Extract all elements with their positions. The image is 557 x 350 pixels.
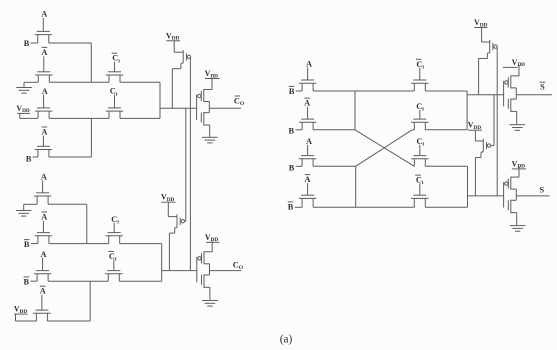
gate lead of M14: [307, 107, 309, 120]
gate lead of M5: [114, 95, 116, 108]
svg-text:S: S: [540, 83, 545, 92]
vertical joining rows S3,S4 outputs: [467, 166, 469, 207]
label B (source of M6): [26, 155, 32, 164]
gate lead of M15: [307, 145, 309, 156]
nmos pass transistor M11 (gate Ci-bar, row 7): [105, 271, 122, 282]
wire B-bar to M10 source: [31, 280, 38, 282]
wire VDD to M12 source: [16, 320, 37, 322]
wire M2 drain to M3 source: [49, 81, 109, 83]
nmos pass transistor M16 (gate A-bar, row S4): [299, 195, 316, 207]
nmos of inverter U1: [201, 108, 209, 137]
wire MP5 gate to cross-coupled line: [496, 46, 498, 48]
label Ci (gate of M5): [110, 87, 118, 98]
ground symbol of U2: [202, 301, 218, 307]
svg-text:A: A: [304, 99, 310, 108]
node X wire (input of Co-bar inverter): [160, 107, 197, 109]
svg-text:A: A: [41, 10, 47, 19]
cross wire S1/S2 node to SC3 source: [355, 130, 414, 167]
svg-text:(a): (a): [280, 334, 293, 346]
svg-text:A: A: [40, 287, 46, 296]
svg-text:A: A: [306, 60, 312, 69]
label B-bar (source of M13): [289, 86, 295, 96]
svg-text:A: A: [41, 213, 47, 222]
gate lead of M12: [41, 295, 43, 310]
svg-text:A: A: [41, 48, 47, 57]
label Co-bar (carry-bar output): [234, 96, 245, 107]
nmos pass transistor M8 (gate A-bar, row 6): [35, 233, 52, 244]
wire VDD to MP6 source: [475, 140, 483, 142]
nmos of inverter U4: [508, 196, 516, 225]
nmos pass transistor M10 (gate A, row 7): [34, 271, 51, 282]
label B (source of M14): [289, 127, 295, 136]
wire row1 to row2 vertical: [90, 43, 92, 82]
VDD stem of keeper MP5: [481, 28, 483, 43]
VDD stem of keeper MP6: [474, 130, 476, 141]
VDD label row 3: [16, 104, 30, 114]
VDD stem of keeper MP2: [167, 202, 169, 216]
wire M11 drain right: [119, 280, 161, 282]
VDD label of inverter U4: [512, 159, 526, 169]
VDD label of inverter U2: [205, 233, 220, 243]
nmos of inverter U3: [508, 95, 516, 124]
VDD stem of keeper MP1: [173, 41, 175, 52]
cross-coupled line from MP5 gate down to node Y2: [496, 47, 498, 196]
pmos of inverter U4: [505, 166, 519, 196]
wire U1 output to Co-bar: [209, 107, 241, 109]
label A-bar (gate of M6): [41, 127, 47, 137]
nmos pass transistor M15 (gate A, row S3): [299, 156, 316, 167]
gate lead of M17: [419, 68, 421, 80]
label A-bar (gate of M8): [41, 212, 47, 222]
gate lead of M9: [113, 223, 115, 233]
wire M10 drain to M11 source: [48, 280, 108, 282]
wire U2 output to Co: [210, 270, 242, 272]
label B-bar (source of M16): [288, 202, 294, 212]
wire B-bar to M16 source: [295, 206, 302, 208]
ground symbol row 2: [16, 88, 32, 94]
wire B to M15 source: [296, 165, 302, 167]
wire M2 source to ground: [24, 81, 38, 83]
wire U4 output to S: [516, 195, 549, 197]
wire M3 drain right: [120, 81, 160, 83]
ground symbol of U4: [510, 226, 526, 232]
svg-text:B: B: [24, 240, 30, 249]
label A (gate of M13): [306, 60, 312, 69]
nmos pass transistor M7 (gate A, row 5): [34, 193, 51, 205]
label A-bar (gate of M2): [41, 47, 47, 57]
wire M18 drain right: [425, 129, 467, 131]
pmos keeper MP6: [475, 139, 490, 196]
svg-text:A: A: [41, 250, 47, 259]
wire row8 to row7 vertical: [89, 281, 91, 321]
wire M14 drain right: [313, 129, 355, 131]
inverter U1 input gate bar: [196, 95, 198, 121]
label A (gate of M4): [42, 87, 48, 96]
nmos pass transistor M5 (gate Ci, row 3): [106, 108, 123, 119]
ground symbol of U3: [510, 125, 526, 131]
nmos pass transistor M18 (gate Ci, row S2): [411, 119, 428, 130]
wire M8 drain to M9 source: [49, 243, 109, 245]
svg-text:B: B: [288, 202, 294, 211]
nmos pass transistor M12 (gate A-bar, row 8): [33, 310, 50, 321]
nmos pass transistor M20 (gate Ci-bar, row S4): [411, 195, 428, 207]
gate lead of M4: [43, 95, 45, 108]
wire M15 drain right: [313, 165, 356, 167]
svg-text:A: A: [41, 173, 47, 182]
ground stem row 2: [23, 82, 25, 87]
pmos keeper MP5: [479, 40, 498, 95]
nmos pass transistor M4 (gate A, row 3): [35, 108, 52, 119]
node Y wire (input of Co inverter): [162, 270, 197, 272]
gate lead of M16: [307, 183, 309, 195]
VDD label row 8: [14, 305, 28, 315]
VDD stem row 3: [19, 113, 21, 118]
wire M13 drain right to SC1 source: [313, 90, 414, 92]
gate lead of M13: [307, 67, 309, 80]
svg-text:A: A: [41, 128, 47, 137]
wire M19 drain right: [425, 165, 467, 167]
inverter U2 input gate bar: [196, 257, 198, 283]
svg-text:B: B: [289, 87, 295, 96]
svg-text:B: B: [24, 39, 30, 48]
svg-text:A: A: [306, 137, 312, 146]
wire VDD to MP1 source: [174, 51, 183, 53]
pmos of inverter U1: [198, 79, 212, 109]
VDD label of keeper MP6: [468, 121, 482, 131]
svg-text:A: A: [42, 87, 48, 96]
vertical tying rows S3,S4: [355, 166, 357, 207]
wire row5 to row6 vertical: [86, 204, 88, 243]
wire M7 source to ground: [24, 203, 37, 205]
label B (source of M1): [24, 39, 30, 48]
label Ci-bar (gate of M20): [415, 175, 424, 186]
label B (source of M15): [289, 164, 295, 173]
pmos keeper MP2: [169, 214, 184, 270]
wire M9 drain right: [120, 243, 162, 245]
label B-bar (source of M8): [24, 240, 30, 250]
inverter U4 input gate bar: [503, 182, 505, 208]
gate lead of M1: [42, 18, 44, 32]
VDD label of inverter U3: [503, 58, 525, 68]
nmos pass transistor M19 (gate Ci, row S3): [411, 156, 428, 167]
label A (gate of M1): [41, 10, 47, 19]
gate lead of M2: [43, 56, 45, 72]
caption (a): [280, 334, 293, 346]
wire M12 drain right: [47, 320, 90, 322]
gate lead of M10: [42, 258, 44, 271]
wire M5 drain right: [120, 117, 160, 119]
label Ci (gate of M9): [111, 215, 119, 226]
gate lead of M7: [42, 180, 44, 192]
gate lead of M3: [114, 62, 116, 72]
label S-bar (sum-bar output): [540, 82, 546, 92]
label Ci (gate of M19): [417, 137, 425, 148]
wire M17 drain right: [425, 90, 467, 92]
cross-coupled line from node X down to MP2 gate: [184, 108, 185, 221]
VDD label of keeper MP2: [161, 193, 175, 203]
svg-text:B: B: [289, 164, 295, 173]
nmos of inverter U2: [202, 271, 210, 300]
nmos pass transistor M14 (gate A-bar, row S2): [299, 119, 316, 130]
svg-text:B: B: [289, 127, 295, 136]
label Co (carry output): [233, 260, 244, 271]
label A-bar (gate of M16): [305, 175, 311, 185]
label S (sum output): [539, 186, 544, 195]
pmos keeper MP1: [172, 50, 190, 108]
vertical tying rows S1,S2: [354, 91, 356, 130]
wire VDD to MP5 source: [482, 41, 490, 43]
inverter U3 input gate bar: [503, 81, 505, 107]
VDD label of inverter U1: [205, 69, 220, 79]
label Ci-bar (gate of M3): [112, 53, 121, 64]
label Ci-bar (gate of M11): [108, 251, 117, 262]
nmos pass transistor M6 (gate A-bar, row 4): [35, 146, 52, 157]
label Ci (gate of M18): [416, 102, 424, 113]
svg-text:S: S: [539, 186, 544, 195]
node X2 wire (input of S-bar inverter): [467, 94, 504, 96]
nmos pass transistor M3 (gate Ci-bar, row 2): [106, 72, 123, 83]
wire B to M1 source: [31, 42, 38, 44]
svg-text:B: B: [26, 155, 32, 164]
wire M7 drain right: [48, 203, 87, 205]
gate lead of M18: [419, 110, 421, 119]
cross wire S3/S4 node to SC2 source: [356, 130, 415, 167]
wire row4 to row3 vertical: [90, 118, 92, 157]
gate lead of M19: [419, 145, 421, 156]
label A (gate of M15): [306, 137, 312, 146]
svg-text:A: A: [305, 175, 311, 184]
label A (gate of M10): [41, 250, 47, 259]
wire VDD to M4 source: [20, 117, 38, 119]
nmos pass transistor M17 (gate Ci-bar, row S1): [411, 80, 428, 91]
wire B-bar to M13 source: [296, 90, 302, 92]
VDD label of keeper MP1: [166, 31, 180, 41]
gate lead of M20: [419, 183, 421, 195]
nmos pass transistor M1 (gate A, row 1): [35, 31, 52, 43]
label B-bar (source of M10): [24, 277, 30, 287]
VDD label of keeper MP5: [474, 18, 488, 28]
vertical joining rows S1,S2 outputs: [466, 91, 468, 130]
vertical joining row2 and row3 outputs: [159, 82, 161, 118]
wire U3 output to S-bar: [516, 94, 552, 96]
label Ci-bar (gate of M17): [416, 59, 425, 70]
wire MP1 gate to cross-coupled line: [189, 56, 191, 58]
wire M16 drain right to SC4 source: [313, 206, 414, 208]
wire M1 drain right: [49, 42, 92, 44]
wire M6 drain right: [49, 156, 92, 158]
wire M4 drain to M5 source: [49, 117, 109, 119]
gate lead of M8: [42, 221, 44, 233]
node Y2 wire (input of S inverter): [468, 195, 504, 197]
gate lead of M6: [42, 136, 44, 147]
label A (gate of M7): [41, 173, 47, 182]
label A-bar (gate of M14): [304, 98, 310, 108]
wire B to M6 source: [33, 156, 38, 158]
vertical joining row6 and row7 outputs: [161, 244, 163, 282]
label A-bar (gate of M12): [40, 286, 46, 296]
svg-text:B: B: [24, 277, 30, 286]
nmos pass transistor M2 (gate A-bar, row 2): [35, 72, 52, 83]
cross-coupled line from MP1 gate down to node Y: [189, 57, 191, 271]
wire B-bar to M8 source: [31, 243, 38, 245]
wire B to M14 source: [296, 129, 303, 131]
cross-coupled line from node X2 down to MP6 gate: [491, 95, 494, 146]
gate lead of M11: [113, 260, 115, 271]
VDD stem row 8: [15, 314, 17, 321]
pmos of inverter U3: [505, 65, 519, 95]
ground symbol row 5: [16, 211, 32, 217]
nmos pass transistor M9 (gate Ci, row 6): [106, 233, 123, 244]
ground symbol of U1: [202, 137, 218, 143]
nmos pass transistor M13 (gate A, row S1): [299, 80, 316, 91]
pmos of inverter U2: [198, 241, 212, 271]
ground stem row 5: [23, 204, 25, 210]
wire M20 drain right: [425, 206, 467, 208]
wire VDD to MP2 source: [168, 216, 177, 218]
